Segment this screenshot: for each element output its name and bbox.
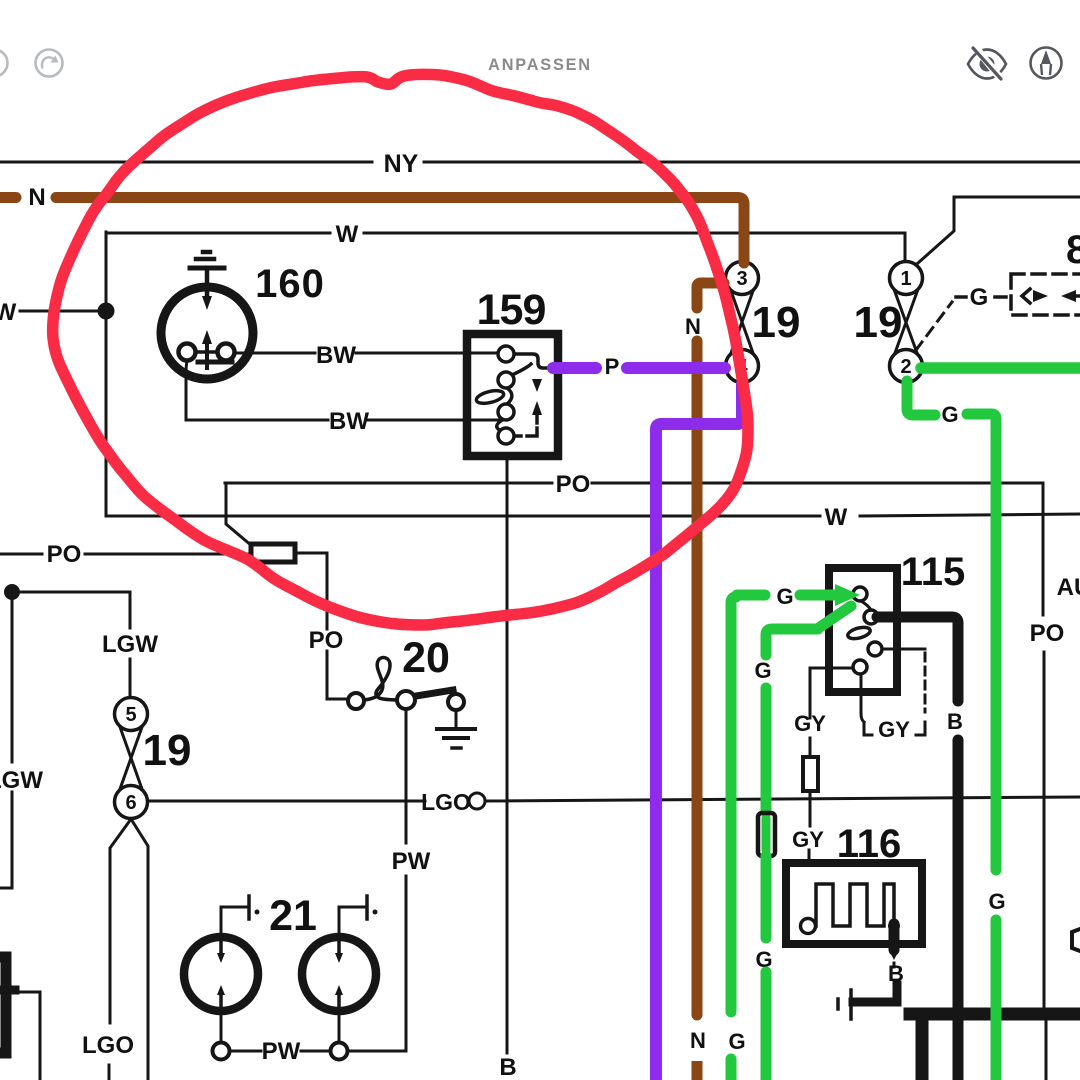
svg-text:20: 20 [402, 634, 450, 682]
switch 20 blade [410, 690, 453, 697]
node junction on panel left edge [98, 303, 115, 320]
wire BW lower [186, 361, 503, 420]
svg-text:ANPASSEN: ANPASSEN [488, 56, 592, 74]
svg-text:LGW: LGW [102, 631, 158, 658]
arrow green into relay pin [835, 584, 860, 606]
svg-text:G: G [728, 1029, 745, 1054]
wire G green branch below connector 2 [907, 381, 935, 415]
gauge 160 inner needle arrow [205, 344, 209, 368]
wire B black stub heater 116 [889, 924, 900, 950]
ground below switch 20 [455, 710, 458, 727]
toolbar pen icon [1031, 48, 1062, 79]
svg-text:115: 115 [901, 550, 966, 594]
gauge 160 terminals [196, 350, 218, 354]
wire N brown vertical [692, 341, 703, 1015]
svg-text:21: 21 [269, 892, 317, 940]
heater 116 B lead [893, 944, 896, 950]
wire PO down to switch 20 [327, 553, 347, 699]
svg-text:1: 1 [900, 268, 911, 290]
gauge 160 top ground stack [205, 268, 210, 295]
svg-text:BW: BW [316, 342, 356, 369]
svg-text:G: G [776, 584, 793, 609]
lamp 21 left arrows [219, 941, 223, 956]
lamp 21 right body [302, 937, 376, 1011]
wire W top edge [106, 232, 905, 235]
svg-text:W: W [0, 299, 17, 326]
svg-text:G: G [988, 889, 1005, 914]
right edge connector stub [1072, 929, 1080, 951]
wire pair below connector 6 [109, 819, 131, 1080]
switch 20 pivot terminal [397, 691, 415, 709]
wire PO left feed [0, 553, 327, 554]
svg-text:N: N [28, 184, 45, 211]
svg-text:LGO: LGO [82, 1032, 134, 1059]
svg-text:PW: PW [262, 1038, 301, 1065]
wire B drop from flasher 159 [506, 456, 509, 1053]
wire G green diagonal to fuse drop [820, 606, 851, 627]
svg-text:G: G [754, 658, 771, 683]
wire PO right vertical [1043, 483, 1046, 1080]
toolbar hide-markup eye icon [968, 46, 1006, 81]
wire dashed G to junction box 8 [916, 302, 952, 350]
connector pair 5/6 crossover [120, 727, 142, 789]
svg-text:PO: PO [309, 627, 344, 654]
svg-text:160: 160 [255, 262, 325, 306]
svg-text:PW: PW [392, 848, 431, 875]
wire top right step to connector 1 [918, 197, 1080, 263]
svg-text:8: 8 [1066, 228, 1080, 272]
wire drop to connector 1 [904, 233, 907, 260]
svg-text:BW: BW [329, 408, 369, 435]
fuse on PO feed [251, 544, 295, 562]
flasher 159 contact arrows [532, 379, 542, 392]
wire G green left vertical [731, 597, 736, 1012]
connector pair 1/2 crossover [895, 292, 917, 353]
wire PO corner down to fuse [226, 483, 252, 546]
wire LGW top run [12, 592, 130, 697]
switch 20 coil loop [364, 658, 401, 700]
svg-text:159: 159 [477, 286, 546, 334]
svg-text:AU: AU [1057, 574, 1080, 601]
svg-text:2: 2 [900, 356, 911, 378]
lamp 21 right arrows [337, 941, 341, 956]
wire PO middle line [225, 482, 1043, 485]
wire W lower line [106, 514, 1080, 516]
wire LGW from junction [0, 600, 12, 888]
flasher 159 body [467, 334, 558, 456]
svg-text:LGO: LGO [421, 789, 471, 815]
wire N brown branch at connector 3 [697, 283, 724, 308]
fuse on green wire [762, 818, 771, 850]
svg-text:N: N [685, 314, 701, 339]
relay 115 armature leaf [847, 625, 872, 641]
lamp 21 left feed with battery tap [221, 907, 246, 937]
wire G green right vertical [967, 414, 996, 870]
wire stub from left-edge box [14, 992, 40, 1080]
svg-text:W: W [825, 504, 848, 531]
lamp 21 left bottom terminal [220, 1011, 223, 1042]
svg-text:PO: PO [47, 541, 82, 568]
component left-edge box [0, 957, 6, 1053]
wire PW vertical from switch 20 [405, 710, 408, 1051]
svg-text:5: 5 [125, 704, 136, 726]
flasher 159 armature leaf [475, 388, 505, 405]
wire P purple from flasher 159 [553, 362, 596, 374]
wire lamp bottom link [230, 1050, 406, 1053]
wire W feed left [20, 310, 102, 313]
switch 20 earth terminal [448, 694, 464, 710]
flasher 159 pin link to P terminal [514, 354, 552, 368]
wire GY fuse link [809, 738, 812, 757]
svg-text:GY: GY [792, 827, 824, 852]
svg-text:W: W [336, 221, 359, 248]
wire G green from connector 2 [921, 362, 1080, 374]
svg-text:PO: PO [556, 471, 591, 498]
svg-text:G: G [970, 284, 989, 311]
svg-text:GY: GY [878, 717, 910, 742]
fuse on GY wire [803, 757, 818, 791]
wire GY from relay pin 4 [810, 668, 853, 718]
wire P purple main drop [656, 384, 742, 1080]
svg-text:B: B [499, 1054, 516, 1080]
node LGO terminal circle [469, 793, 485, 809]
node junction LGW [4, 584, 20, 600]
svg-text:PO: PO [1030, 620, 1065, 647]
wire NY bus [0, 161, 1080, 164]
wire N brown feed top [0, 192, 16, 203]
wire LGO line [149, 797, 1080, 801]
connector pair 3/4 crossover [731, 291, 753, 353]
svg-text:B: B [888, 961, 904, 986]
svg-text:NY: NY [384, 150, 419, 178]
ground for heater 116 [853, 985, 897, 1002]
flasher 159 pins [498, 346, 514, 362]
wire panel left vertical [105, 232, 108, 516]
junction box 8 dashed outline [1011, 274, 1080, 315]
svg-text:G: G [941, 402, 958, 427]
wire GY from relay pin 3 [883, 648, 925, 651]
relay 115 pins [853, 587, 867, 601]
svg-text:N: N [690, 1028, 706, 1053]
toolbar undo icon (clipped) [0, 50, 8, 77]
lamp 21 right bottom terminal [338, 1011, 341, 1042]
svg-text:19: 19 [143, 726, 192, 775]
wire G green relay feed [737, 590, 765, 601]
gauge 160 body [161, 287, 253, 379]
svg-text:3: 3 [736, 268, 747, 290]
lamp 21 left body [184, 937, 258, 1011]
svg-text:GY: GY [794, 711, 826, 736]
wire B black from relay 115 [877, 617, 958, 701]
junction box 8 inner arrows [1022, 289, 1030, 303]
svg-text:6: 6 [125, 792, 136, 814]
svg-text:116: 116 [837, 822, 902, 866]
toolbar redo icon [36, 50, 63, 77]
heater 116 element [816, 884, 894, 926]
battery bus bottom right [910, 1008, 1080, 1021]
svg-text:B: B [947, 709, 963, 734]
heater 116 body [786, 863, 922, 944]
switch 20 input terminal [348, 693, 364, 709]
annotation red loop [53, 74, 748, 625]
svg-text:19: 19 [752, 298, 801, 347]
wire BW upper [236, 352, 497, 355]
svg-text:19: 19 [854, 298, 903, 347]
svg-text:LGW: LGW [0, 767, 43, 794]
relay 115 body [829, 568, 897, 692]
lamp 21 right feed with battery tap [339, 907, 364, 937]
flasher 159 inner links [512, 364, 531, 375]
svg-text:P: P [605, 354, 620, 379]
